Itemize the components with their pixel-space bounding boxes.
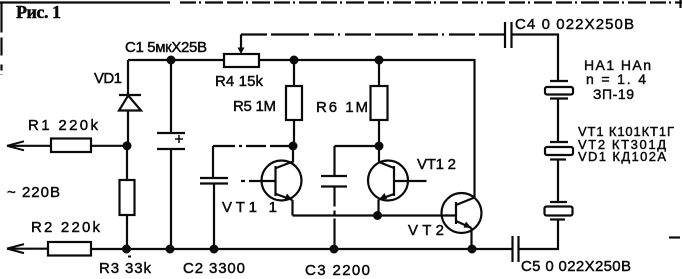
node junction VT2 emitter <box>468 245 477 254</box>
capacitor C3 top plate <box>321 175 347 177</box>
capacitor C4 left plate <box>504 22 506 48</box>
stray mark below rail <box>128 256 131 258</box>
buzzer piezo element 3 top bar <box>550 201 567 203</box>
node junction C3 bottom <box>330 245 339 254</box>
transistor VT1.1 emitter lead <box>276 194 293 200</box>
resistor R6 lead from rail <box>378 60 380 86</box>
capacitor C3 bottom plate <box>321 185 347 187</box>
wire C2 top corner to R5 node <box>213 145 293 147</box>
resistor R4 15k (on top rail) <box>224 54 259 67</box>
node junction R6/VT1.2 collector <box>375 142 384 151</box>
wire C3 corner vertical <box>333 146 335 176</box>
buzzer piezo element 3 body <box>545 207 573 216</box>
transistor VT1.2 circle <box>368 161 408 201</box>
wire top rail left (C1 corner to R4) <box>128 59 224 61</box>
resistor R5 1M <box>286 86 302 120</box>
svg-text:C3 2200: C3 2200 <box>305 262 370 279</box>
wire R1 to node <box>91 145 127 147</box>
svg-text:VT1 1: VT1 1 <box>222 199 277 216</box>
frame right corner tick <box>679 0 681 8</box>
svg-text:R6 1M: R6 1M <box>316 99 368 116</box>
transistor VT1.1 base bar <box>274 166 276 196</box>
wire VT2 collector vertical drop from top rail <box>473 59 475 198</box>
node junction C1 bottom <box>166 245 175 254</box>
buzzer piezo element 2 body <box>545 147 573 155</box>
svg-text:R3 33k: R3 33k <box>99 260 152 277</box>
diode VD1 cathode bar <box>119 94 141 96</box>
transistor VT2 base bar <box>455 202 457 224</box>
capacitor C5 right plate <box>517 236 519 262</box>
svg-text:ЗП-19: ЗП-19 <box>593 86 634 102</box>
svg-text:VT1 2: VT1 2 <box>417 156 456 173</box>
buzzer piezo element 2 bottom bar <box>550 158 566 160</box>
svg-text:C1 5мкХ25В: C1 5мкХ25В <box>125 39 207 56</box>
svg-text:C5 0 022Х250В: C5 0 022Х250В <box>521 258 631 275</box>
svg-text:C4 0 022Х250В: C4 0 022Х250В <box>515 16 634 33</box>
svg-text:VT2: VT2 <box>408 222 444 239</box>
svg-text:R2 220k: R2 220k <box>31 219 101 236</box>
svg-text:Рис. 1: Рис. 1 <box>16 2 61 22</box>
svg-text:VD1 КД102А: VD1 КД102А <box>578 149 666 164</box>
node junction C2 bottom <box>210 245 219 254</box>
buzzer piezo element 3 bottom bar <box>550 218 565 220</box>
capacitor C1 bottom plate <box>157 148 185 150</box>
wire C2 to bottom rail <box>213 184 215 250</box>
capacitor C2 top plate <box>200 177 228 179</box>
capacitor C1 bottom lead <box>170 149 172 249</box>
capacitor C4 right plate <box>510 22 512 48</box>
frame left edge <box>0 3 2 76</box>
wire R6 to collector node <box>378 120 380 146</box>
transistor VT2 circle <box>442 193 482 233</box>
node junction R5/VT1.1 collector <box>289 142 298 151</box>
wire bottom rail <box>91 248 513 250</box>
wire top rail right (R5 node to VT2 collector corner) <box>294 59 475 61</box>
buzzer piezo element 2 top bar <box>550 141 568 143</box>
node junction C1 top <box>167 56 176 65</box>
svg-text:R4 15k: R4 15k <box>215 73 264 90</box>
buzzer HA1 piezo element 1 body <box>545 87 573 95</box>
wire arrow to R1 <box>7 145 51 147</box>
transistor VT2 collector lead <box>456 198 475 206</box>
transistor VT1.1 collector lead <box>276 146 293 168</box>
transistor VT1.1 circle <box>262 161 302 201</box>
svg-text:n = 1. 4: n = 1. 4 <box>586 71 646 87</box>
transistor VT1.2 base lead stub <box>394 180 427 182</box>
capacitor C5 left plate <box>511 236 513 262</box>
wire emitter rail to VT2 base <box>293 214 457 216</box>
wire VT2 emitter to bottom rail <box>470 228 472 249</box>
node junction R6 top <box>375 56 384 65</box>
svg-text:R5 1M: R5 1M <box>233 98 276 115</box>
svg-text:R1 220k: R1 220k <box>28 117 99 134</box>
resistor R1 220k <box>51 139 91 153</box>
capacitor C1 top lead <box>170 60 172 133</box>
wire piezo3 to C5 corner <box>519 220 559 250</box>
buzzer HA1 piezo element 1 bottom bar <box>550 97 568 99</box>
transistor VT2 emitter arrow <box>464 222 472 229</box>
transistor VT1.2 collector lead <box>379 146 394 168</box>
wire C3 to bottom rail <box>333 187 335 250</box>
transistor VT1.2 emitter lead <box>379 194 394 200</box>
svg-text:~ 220В: ~ 220В <box>7 184 60 201</box>
wire node to R3 <box>126 146 128 180</box>
wire wiper to C4 <box>241 33 505 35</box>
wire VT1.2 emitter down <box>377 200 379 216</box>
node junction R1/VD1/R3 <box>123 141 132 150</box>
buzzer HA1 piezo element 1 top bar <box>550 80 568 82</box>
mains input arrow top <box>7 141 24 150</box>
node junction R5 top <box>290 56 299 65</box>
frame mark bottom right <box>669 236 680 238</box>
wire R5 to collector node <box>293 120 295 146</box>
diode VD1 triangle <box>119 96 141 111</box>
wire R3 to bottom rail <box>126 215 128 249</box>
transistor VT1.2 base bar <box>393 166 395 196</box>
resistor R6 1M <box>371 86 388 120</box>
resistor R2 220k <box>48 242 91 256</box>
transistor VT2 emitter lead <box>456 221 472 228</box>
frame top dashed border <box>0 1 170 3</box>
transistor VT1.1 base lead <box>241 180 276 182</box>
resistor R5 lead from rail <box>293 60 295 86</box>
wire VT1.1 emitter down <box>291 200 293 216</box>
node junction R3 bottom <box>122 245 131 254</box>
wire R4 wiper vertical <box>240 35 242 49</box>
R4 wiper arrowhead <box>238 48 245 55</box>
capacitor C2 bottom plate <box>200 182 228 184</box>
wire piezo2 to piezo3 <box>557 160 559 203</box>
svg-text:VD1: VD1 <box>94 70 122 87</box>
node junction VT1.2 emitter <box>373 211 382 220</box>
wire top rail middle (R4 to R5 node) <box>259 59 294 61</box>
wire arrow to R2 <box>7 248 48 250</box>
wire C4 to corner <box>512 35 559 82</box>
diode VD1 anode lead <box>127 111 129 146</box>
transistor VT1.1 emitter arrow <box>285 194 293 201</box>
diode VD1 cathode lead up to rail <box>127 60 129 95</box>
svg-text:C2 3300: C2 3300 <box>183 260 245 277</box>
mains input arrow bottom <box>7 244 24 253</box>
wire C3 top corner to R6 node <box>335 145 380 147</box>
transistor VT1.2 emitter arrow <box>379 193 387 200</box>
wire C2 corner vertical <box>212 146 214 178</box>
capacitor C1 polarity plus <box>175 135 183 143</box>
capacitor C1 top plate <box>157 132 185 134</box>
wire piezo1 to piezo2 <box>557 99 559 143</box>
resistor R3 33k <box>120 180 135 215</box>
